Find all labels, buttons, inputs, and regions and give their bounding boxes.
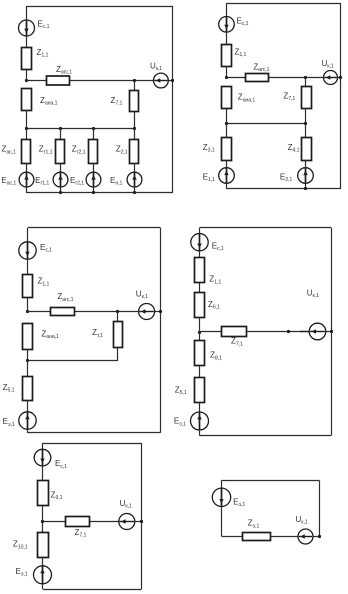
wire Ec,1 to Z1,1 (4) [199, 251, 201, 258]
svg-text:Z6,1: Z6,1 [208, 300, 220, 311]
svg-text:Zт,1: Zт,1 [92, 328, 103, 339]
wire Z8,1 to Z5,1 (4) [199, 366, 201, 378]
voltage Uk,1 source circle (2) [324, 71, 338, 85]
wire resistor to source branch 1 [26, 163, 28, 172]
wire node A2 to Zagc,1 (2) [226, 77, 246, 79]
EMF source Ee,1 (6) [212, 488, 230, 506]
wire E2,1 to bottom rail [305, 183, 307, 188]
node A3 junction [26, 310, 29, 313]
impedance Z5,1 (4) [195, 378, 205, 403]
wire source to bottom rail branch 4 [134, 187, 136, 192]
wire Ec,1 to Z1,1 (2) [226, 32, 228, 44]
svg-text:Z5,1: Z5,1 [175, 386, 187, 397]
svg-text:Eэ,1: Eэ,1 [174, 417, 186, 428]
impedance Z10,1 [38, 533, 49, 558]
voltage Uk,1 source circle (4) [309, 323, 326, 340]
svg-text:Uк,1: Uк,1 [136, 290, 148, 301]
impedance Z1,1 [22, 48, 32, 70]
circuit 4 frame: top rail wire [200, 227, 332, 229]
svg-text:Z1,1: Z1,1 [37, 48, 49, 59]
junction dot bottom rail x93.4 [92, 191, 95, 194]
impedance Z5,1 (3) [23, 377, 33, 401]
junction dot node B3 [116, 310, 119, 313]
svg-text:Z7,1: Z7,1 [283, 91, 295, 102]
wire Uk,1 to right rail (4) [326, 331, 331, 333]
wire Uk,1 to right rail (3) [155, 311, 161, 313]
node A5 junction [41, 520, 44, 523]
impedance Z7,1 [130, 91, 139, 112]
impedance Z9,1 [38, 481, 49, 506]
impedance Z7,1 (2) [302, 87, 312, 109]
circuit 2 bottom rail wire [226, 188, 341, 190]
voltage Uk,1 source circle (6) [298, 529, 313, 544]
wire Z1,1 to node A1 [26, 70, 28, 81]
wire node B2 to Z7,1 (2) [305, 78, 307, 87]
wire Z7,1 to lower rail [134, 111, 136, 128]
wire Ze,1 to Uk,1 (6) [270, 536, 298, 538]
impedance Z1,1 (3) [23, 275, 33, 298]
wire top to source Ec,1 (4) [199, 228, 201, 234]
arrow line of Uk,1 (4) [300, 331, 309, 333]
circuit 4 bottom rail wire [200, 435, 332, 437]
EMF source Ee,1 (3) [19, 412, 36, 429]
wire Z7,1 to rail2 (2) [305, 108, 307, 124]
svg-text:Z3,1: Z3,1 [203, 143, 215, 154]
junction dot rail2 x26 [25, 127, 28, 130]
impedance Zana,1 (2) [222, 87, 232, 109]
svg-text:Eас,1: Eас,1 [1, 176, 16, 187]
junction dot bottom rail x134.4 [133, 191, 136, 194]
impedance Z7,1 (4) horizontal [222, 327, 247, 337]
wire Zagc,1 to Uk,1 (2) [269, 77, 324, 79]
circuit 6 frame: top rail wire [222, 480, 320, 482]
svg-text:E2,1: E2,1 [280, 172, 292, 183]
wire Ee,1 down to bottom wire (6) [221, 507, 223, 537]
node C3 junction [26, 359, 29, 362]
wire node B3 to Zt,1 [117, 312, 119, 322]
wire Ec,1 to Z1,1 [26, 36, 28, 48]
wire node A5 to Z7,1 (5) [43, 521, 66, 523]
svg-text:Z7,1: Z7,1 [111, 96, 123, 107]
svg-text:Eэ,1: Eэ,1 [3, 417, 15, 428]
impedance Zг2,1 [89, 140, 98, 164]
wire Zana,1 to rail2 (2) [226, 109, 228, 124]
svg-text:Z1,1: Z1,1 [209, 275, 221, 286]
impedance Z4,1 [302, 138, 312, 161]
junction dot on right rail [171, 79, 174, 82]
wire top to source Ec,1 (5) [42, 443, 44, 449]
impedance Z6,1 [195, 293, 205, 318]
svg-text:Uк,1: Uк,1 [296, 515, 308, 526]
svg-text:Z1,1: Z1,1 [235, 47, 247, 58]
svg-text:Eэ,1: Eэ,1 [16, 567, 28, 578]
wire Z7,1 to Uk,1 (5) [90, 521, 119, 523]
wire rail2 to Z4,1 [305, 124, 307, 138]
wire resistor to source branch 4 [134, 163, 136, 172]
svg-text:Z9,1: Z9,1 [51, 490, 63, 501]
wire Z6,1 to node A4 [199, 317, 201, 332]
bottom wire to Ze,1 [222, 536, 243, 538]
svg-text:Z8,1: Z8,1 [210, 351, 222, 362]
circuit 5 right rail wire [141, 443, 143, 589]
svg-text:Zана,1: Zана,1 [40, 96, 58, 107]
wire Z4,1 to E2,1 [305, 160, 307, 168]
svg-text:Zг1,1: Zг1,1 [39, 145, 53, 156]
junction dot right rail (2) [339, 76, 342, 79]
circuit 3 frame: top rail wire [28, 227, 160, 229]
EMF source Ee,1 (5) [34, 566, 52, 584]
circuit 2 frame: top rail wire [226, 3, 341, 5]
junction dot node B2 [304, 76, 307, 79]
impedance Zagc,1 (2) [246, 74, 269, 82]
svg-text:Zана,1: Zана,1 [41, 330, 59, 341]
impedance Zagc,1 (3) [51, 308, 75, 316]
wire resistor to source branch 3 [93, 163, 95, 172]
svg-text:Zг2,1: Zг2,1 [72, 145, 86, 156]
svg-text:Eг2,1: Eг2,1 [70, 176, 84, 187]
voltage Uk,1 source circle [154, 73, 169, 88]
svg-text:Uк,1: Uк,1 [322, 59, 334, 70]
EMF source Eг2,1 [86, 172, 101, 187]
EMF source Ec,1 (3) [19, 242, 36, 259]
impedance Zana,1 [22, 89, 32, 111]
junction dot rail2 x60 [59, 127, 62, 130]
svg-text:Zагс,1: Zагс,1 [253, 63, 269, 74]
impedance Zt,1 [114, 322, 123, 348]
svg-text:Z10,1: Z10,1 [13, 540, 28, 551]
wire rail2 to branch 1 resistor [26, 128, 28, 140]
impedance Z8,1 [195, 341, 205, 366]
wire Ee,1 to bottom rail (5) [42, 584, 44, 589]
impedance Z3,1 [222, 138, 232, 161]
circuit 1 right rail wire [172, 6, 174, 192]
cross wire Zt,1 to node C3 [28, 360, 118, 362]
wire Uk,1 to right rail [168, 80, 173, 82]
wire Ec,1 to Z1,1 (3) [27, 259, 29, 274]
junction dot node B4 [287, 330, 290, 333]
circuit 5 frame: top rail wire [43, 443, 142, 445]
svg-text:Eэ,1: Eэ,1 [233, 497, 245, 508]
svg-text:Z7,1: Z7,1 [75, 528, 87, 539]
node A4 junction [198, 331, 201, 334]
wire resistor to source branch 2 [60, 163, 62, 172]
impedance Zг1,1 [56, 140, 65, 164]
impedance Zagc,1 (horizontal) [47, 76, 70, 85]
svg-text:Z2,1: Z2,1 [116, 145, 128, 156]
wire Z1,1 to node A3 [27, 298, 29, 312]
EMF source Eг1,1 [53, 172, 68, 187]
EMF source Ec,1 (5) [34, 449, 51, 466]
impedance Zас,1 [22, 140, 31, 164]
junction dot rail2 right (2) [304, 122, 307, 125]
svg-text:Uк,1: Uк,1 [150, 62, 162, 73]
circuit 1 frame: top rail wire [26, 6, 173, 8]
circuit 3 bottom rail wire [28, 432, 160, 434]
wire Z7,1 to Uk,1 (4) [247, 331, 310, 333]
wire top to source Ee,1 (6) [221, 480, 223, 488]
wire Ee,1 to bottom rail (4) [199, 430, 201, 436]
svg-text:Zагс,1: Zагс,1 [57, 292, 73, 303]
wire node A4 to Z7,1 (4) [200, 331, 222, 333]
svg-text:E1,1: E1,1 [203, 172, 215, 183]
wire node A3 to Zagc,1 (3) [28, 311, 51, 313]
wire rail2 to branch 2 resistor [60, 128, 62, 140]
wire top to source Ec,1 (2) [226, 3, 228, 16]
node A2 junction [225, 76, 228, 79]
svg-text:Z7,1: Z7,1 [231, 337, 243, 348]
svg-text:Z4,1: Z4,1 [288, 143, 300, 154]
junction dot rail2 x93 [92, 127, 95, 130]
circuit 6 right rail wire [319, 480, 321, 536]
svg-text:Uк,1: Uк,1 [120, 499, 132, 510]
circuit 5 bottom rail wire [43, 589, 142, 591]
junction dot bottom rail (2) [304, 187, 307, 190]
wire Z1,1 to Z6,1 [199, 283, 201, 292]
junction dot right rail (5) [140, 520, 143, 523]
EMF source E1,1 [219, 168, 235, 184]
wire Zagc,1 to Uk,1 (3) [75, 311, 139, 313]
EMF source Ec,1 (2) [219, 17, 235, 33]
svg-text:Zагс,1: Zагс,1 [56, 65, 72, 76]
EMF source Eн,1 [127, 172, 142, 187]
junction dot rail2 x134 [133, 127, 136, 130]
wire top to source Ec,1 [26, 6, 28, 20]
svg-text:Zана,1: Zана,1 [238, 93, 256, 104]
wire node B1 to Z7,1 [134, 81, 136, 90]
svg-text:Eс,1: Eс,1 [55, 459, 67, 470]
wire Ee,1 to bottom rail (3) [27, 429, 29, 433]
wire Zana,1 to node C3 [27, 349, 29, 361]
impedance Z7,1 (5) horizontal [66, 517, 90, 527]
svg-text:Uк,1: Uк,1 [307, 288, 319, 299]
svg-text:Eс,1: Eс,1 [38, 20, 50, 31]
impedance Z1,1 (2) [222, 45, 232, 67]
voltage Uk,1 source circle (5) [119, 514, 135, 530]
wire Uk,1 to right rail (6) [313, 536, 319, 538]
junction dot right rail (6) [318, 535, 321, 538]
circuit 4 right rail wire [331, 228, 333, 436]
wire node A4 to Z8,1 [199, 332, 201, 341]
wire Z5,1 to Ee,1 (4) [199, 402, 201, 412]
impedance Zana,1 (3) [23, 324, 33, 350]
wire rail2 to Z3,1 [226, 124, 228, 138]
wire source to bottom rail branch 1 [26, 187, 28, 192]
wire Zana,1 to lower rail [26, 111, 28, 128]
svg-text:Eс,1: Eс,1 [212, 241, 224, 252]
wire rail2 to branch 3 resistor [93, 128, 95, 140]
svg-text:Zэ,1: Zэ,1 [248, 519, 260, 530]
junction dot node B1 [133, 79, 136, 82]
EMF source Ec,1 [19, 20, 35, 36]
junction dot right rail (4) [330, 330, 333, 333]
circuit 1 bottom rail wire [26, 192, 173, 194]
wire Uk,1 to right rail (2) [338, 77, 342, 79]
svg-text:Eн,1: Eн,1 [110, 176, 122, 187]
wire Z1,1 to node A2 [226, 66, 228, 78]
wire rail2 to branch 4 resistor [134, 128, 136, 140]
wire Zagc,1 to Uk,1 [69, 80, 153, 82]
circuit 2 right rail wire [340, 3, 342, 188]
impedance Ze,1 horizontal [243, 533, 271, 541]
wire node A1 to Zagc,1 [26, 80, 46, 82]
svg-text:Eс,1: Eс,1 [40, 243, 52, 254]
EMF source E2,1 [298, 168, 314, 184]
wire Z9,1 to node A5 [42, 506, 44, 532]
voltage Uk,1 source circle (3) [139, 304, 155, 320]
svg-text:Z1,1: Z1,1 [38, 277, 50, 288]
junction dot rail2 left (2) [225, 122, 228, 125]
wire node C3 to Z5,1 [27, 361, 29, 377]
wire Z5,1 to E3,1 (3) [27, 401, 29, 412]
impedance Z1,1 (4) [195, 258, 205, 283]
EMF source Eас,1 [19, 172, 34, 187]
wire source to bottom rail branch 2 [60, 187, 62, 192]
wire top to source Ec,1 (3) [27, 228, 29, 242]
wire Zt,1 down to cross wire [117, 348, 119, 361]
wire source to bottom rail branch 3 [93, 187, 95, 192]
svg-text:Eг1,1: Eг1,1 [35, 176, 49, 187]
wire Z3,1 to E1,1 [226, 160, 228, 168]
EMF source Ec,1 (4) [191, 234, 208, 251]
lower rail wire [26, 128, 134, 130]
rail2 wire (2) [226, 123, 306, 125]
svg-text:Zас,1: Zас,1 [2, 145, 17, 156]
junction dot bottom rail x60.4 [59, 191, 62, 194]
wire E1,1 to bottom rail [226, 183, 228, 188]
EMF source Ee,1 (4) [191, 412, 209, 430]
svg-text:Z5,1: Z5,1 [3, 383, 15, 394]
junction dot right rail (3) [159, 310, 162, 313]
wire Z10,1 to Ee,1 (5) [42, 557, 44, 566]
node A1 junction [25, 79, 28, 82]
svg-text:Eс,1: Eс,1 [237, 16, 249, 27]
impedance Z2,1 [130, 140, 139, 164]
wire Ec,1 to Z9,1 [42, 466, 44, 481]
circuit 3 right rail wire [160, 228, 162, 433]
wire Uk,1 to right rail (5) [135, 521, 142, 523]
